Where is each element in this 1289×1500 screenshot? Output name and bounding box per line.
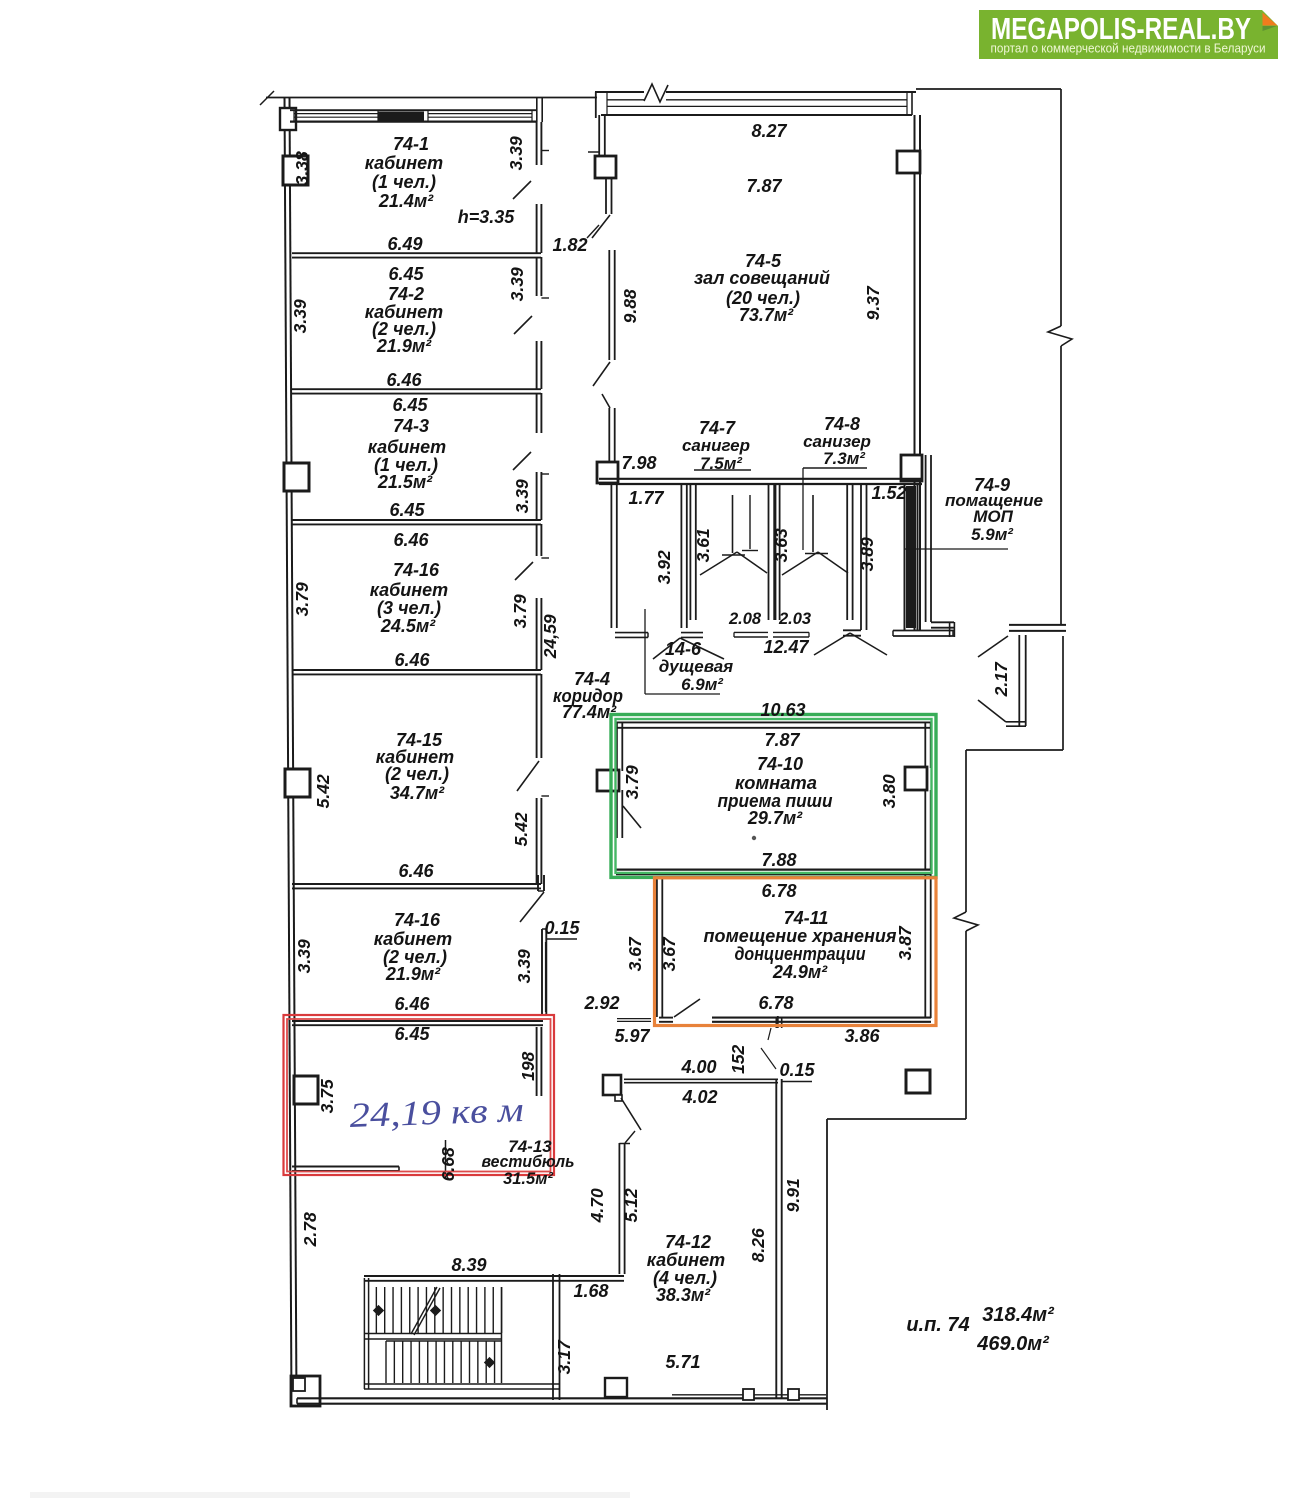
site boundary vertical x=827 <box>826 1119 828 1410</box>
svg-text:3.87: 3.87 <box>895 925 915 960</box>
window sill mark 2 <box>788 1389 799 1400</box>
room 74-12 top wall (4.00/4.02 dim) <box>624 1079 778 1082</box>
wall stub below room with red mark <box>292 1167 399 1171</box>
dimension line 2.08 <box>734 632 768 637</box>
room 74-16 corridor wall lower <box>537 598 542 670</box>
wall stub near 6.68 label <box>445 1140 447 1179</box>
dim 3.39 door 74-16(2) <box>514 949 534 983</box>
svg-text:21.9м²: 21.9м² <box>385 964 441 984</box>
door swing passage lower <box>978 700 1006 722</box>
svg-text:74-16: 74-16 <box>393 560 440 580</box>
label leader 7.3m2 <box>803 468 867 550</box>
sanitary corridor wall stub <box>843 630 861 635</box>
room 74-1 top wall inner line <box>290 120 536 122</box>
dim 3.39 door 74-3 <box>512 479 532 513</box>
partition wall 74-1/74-2 <box>292 253 541 257</box>
svg-text:3.17: 3.17 <box>554 1339 574 1374</box>
door leaf room 74-1 <box>513 181 531 199</box>
room 74-5 left wall segment 2 <box>606 178 612 214</box>
svg-text:5.42: 5.42 <box>313 774 333 808</box>
room 74-13 labels <box>482 1137 575 1188</box>
dim 152 <box>728 1044 748 1073</box>
faint scan marks at bottom <box>30 1492 630 1498</box>
svg-text:3.75: 3.75 <box>317 1079 337 1113</box>
dimension 1.52 <box>871 483 906 503</box>
pilaster at bottom-left corner <box>291 1376 320 1406</box>
pilaster on left wall at top corner <box>280 108 296 130</box>
svg-text:24,19 кв м: 24,19 кв м <box>349 1090 524 1135</box>
dimension 6.49 <box>387 234 422 254</box>
svg-text:38.3м²: 38.3м² <box>656 1285 711 1305</box>
svg-text:портал о коммерческой недвижим: портал о коммерческой недвижимости в Бел… <box>991 42 1266 56</box>
dim 8.26 <box>748 1228 768 1262</box>
svg-text:21.9м²: 21.9м² <box>376 336 432 356</box>
room 74-5 left wall upper segment <box>588 115 605 156</box>
svg-text:комната: комната <box>735 773 817 793</box>
dim 9.91 <box>783 1178 803 1212</box>
svg-text:донциентрации: донциентрации <box>735 944 866 964</box>
room 74-1 corridor wall lower <box>537 204 542 253</box>
partition wall 74-16/74-15 <box>292 670 541 674</box>
room 74-7 labels <box>682 418 750 473</box>
svg-text:24,59: 24,59 <box>540 614 560 659</box>
svg-text:7.88: 7.88 <box>761 850 796 870</box>
svg-text:3.79: 3.79 <box>292 582 312 616</box>
svg-text:5.9м²: 5.9м² <box>971 525 1014 544</box>
pilaster on 74-5 right wall lower <box>901 455 922 481</box>
door leaf room 74-3 <box>513 452 531 470</box>
svg-text:74-2: 74-2 <box>388 284 424 304</box>
site boundary right upper segment with break symbol <box>1048 89 1072 624</box>
site boundary step at y=1119 <box>827 1118 966 1120</box>
door swing passage upper <box>978 636 1008 657</box>
svg-text:74-3: 74-3 <box>393 416 429 436</box>
stairwell top wall <box>364 1276 624 1281</box>
room 74-11 right wall <box>925 874 930 1018</box>
dim 6.68 <box>438 1147 458 1181</box>
room 74-5 left wall segment 4 <box>609 408 614 463</box>
svg-text:2.78: 2.78 <box>300 1212 320 1247</box>
pilaster on bottom wall <box>605 1378 627 1397</box>
svg-text:6.78: 6.78 <box>758 993 793 1013</box>
pilaster on left wall y=1076 <box>294 1076 318 1104</box>
pilaster on 74-5 left wall <box>595 156 616 178</box>
dimension 10.63 <box>760 700 805 720</box>
dim 3.67 b <box>659 936 679 971</box>
svg-text:7.87: 7.87 <box>746 176 782 196</box>
room 74-16 labels <box>370 530 448 670</box>
svg-text:12.47: 12.47 <box>763 637 809 657</box>
svg-text:74-1: 74-1 <box>393 134 429 154</box>
staircase landing lines <box>364 1334 502 1340</box>
window in 74-1 top wall (right) <box>428 110 532 121</box>
room 74-16(2) corridor wall lower <box>542 929 546 1015</box>
svg-text:198: 198 <box>518 1051 538 1080</box>
svg-text:6.68: 6.68 <box>438 1147 458 1181</box>
svg-text:8.26: 8.26 <box>748 1228 768 1262</box>
svg-text:2.03: 2.03 <box>778 610 811 628</box>
logo orange fold corner <box>1263 13 1278 32</box>
dimension 1.77 <box>628 488 664 508</box>
svg-text:3.39: 3.39 <box>506 136 526 170</box>
dim 3.75 left <box>317 1079 337 1113</box>
svg-text:74-16: 74-16 <box>394 910 441 930</box>
pilaster at sanitary block top-left <box>597 462 618 483</box>
dim 3.17 <box>554 1339 574 1374</box>
svg-text:74-8: 74-8 <box>824 414 860 434</box>
store room bottom foot <box>893 631 955 637</box>
dimension 2.08 <box>728 610 762 628</box>
room 74-11 labels <box>704 881 897 1013</box>
door swing store room <box>814 633 887 655</box>
sanitary block top wall <box>599 479 922 484</box>
svg-text:6.45: 6.45 <box>388 264 424 284</box>
svg-text:7.87: 7.87 <box>764 730 800 750</box>
door leaf room 74-2 <box>514 316 532 334</box>
svg-text:6.46: 6.46 <box>398 861 434 881</box>
leader lines for 152 <box>761 1028 776 1069</box>
svg-text:дущевая: дущевая <box>659 657 733 676</box>
svg-text:6.45: 6.45 <box>392 395 428 415</box>
door swing toilet 74-8 <box>782 552 848 575</box>
dim 3.39 left b <box>294 939 314 973</box>
dim 24.59 corridor <box>540 614 560 659</box>
room 74-1 corridor wall upper <box>537 122 549 165</box>
dim 3.92 <box>654 550 674 584</box>
svg-text:3.39: 3.39 <box>512 479 532 513</box>
corridor 74-4 labels <box>553 669 623 722</box>
room 74-1 top wall outer line <box>290 109 536 111</box>
passage wall 2.17 <box>1019 635 1025 726</box>
svg-text:4.00: 4.00 <box>680 1057 716 1077</box>
svg-text:3.89: 3.89 <box>857 537 877 571</box>
room 74-16(2) corridor wall upper <box>538 875 544 891</box>
room 74-16 corridor wall upper <box>537 524 549 558</box>
svg-text:152: 152 <box>728 1044 748 1073</box>
total area labels <box>906 1304 1055 1355</box>
room 74-2 corridor wall upper <box>537 257 549 298</box>
stairwell right wall <box>553 1274 560 1400</box>
pilaster on left wall y=769 <box>285 769 310 797</box>
toilet stall divider 74-7 <box>722 495 745 555</box>
dimension 4.00 <box>680 1057 716 1077</box>
dim 2.17 <box>991 661 1011 697</box>
svg-text:318.4м²: 318.4м² <box>982 1304 1055 1326</box>
svg-text:3.79: 3.79 <box>622 765 642 799</box>
svg-text:зал совещаний: зал совещаний <box>694 268 830 288</box>
svg-text:1.68: 1.68 <box>573 1281 608 1301</box>
dimension 12.47 <box>763 637 809 657</box>
room 74-5 top wall outer line <box>595 92 916 118</box>
store room right wall <box>905 484 918 630</box>
svg-text:0.15: 0.15 <box>779 1060 815 1080</box>
staircase bottom line <box>364 1384 559 1389</box>
leader tick for 1.82 <box>587 225 599 238</box>
dimension line 2.03 <box>773 632 809 637</box>
room 74-16(2) labels <box>374 910 452 1014</box>
site boundary step at y=750 <box>966 749 1063 751</box>
dim 3.39 door 74-2 <box>507 267 527 301</box>
pilaster column near boundary step <box>906 1070 930 1093</box>
dimension 3.86 <box>844 1026 880 1046</box>
label leader 7.5m2 <box>694 469 751 471</box>
dimension 6.45 red room <box>394 1024 430 1044</box>
dimension 0.15 lower <box>779 1060 815 1080</box>
dimension tick 152 top <box>777 1016 779 1028</box>
svg-text:9.37: 9.37 <box>863 285 883 320</box>
room 74-7 right wall <box>769 484 776 620</box>
pilaster on left wall y=463 <box>284 463 309 491</box>
room 74-8 right wall <box>847 484 852 620</box>
svg-text:(3 чел.): (3 чел.) <box>377 598 441 618</box>
pilaster on left wall y=156 <box>283 156 308 185</box>
svg-text:6.45: 6.45 <box>394 1024 430 1044</box>
door leaf vestibule/74-12 <box>621 1098 641 1130</box>
svg-text:(1 чел.): (1 чел.) <box>372 172 436 192</box>
svg-text:(2 чел.): (2 чел.) <box>385 764 449 784</box>
svg-text:4.02: 4.02 <box>681 1087 717 1107</box>
room 14-6 right wall <box>681 484 686 628</box>
svg-text:24.5м²: 24.5м² <box>380 616 436 636</box>
svg-text:кабинет: кабинет <box>647 1250 725 1270</box>
staircase section mark 2 <box>430 1305 441 1316</box>
svg-text:74-7: 74-7 <box>699 418 736 438</box>
svg-text:санигер: санигер <box>682 436 750 455</box>
room 74-9 left wall <box>926 455 931 622</box>
wall connector at 74-1 top-right corner <box>537 98 542 123</box>
dimension 5.97 <box>614 1026 650 1046</box>
room 74-10 left wall lower <box>617 790 622 838</box>
room 74-5 right wall <box>915 115 921 630</box>
dim 3.89 <box>857 537 877 571</box>
pilaster on 74-5 right wall upper <box>897 151 920 173</box>
svg-text:1.52: 1.52 <box>871 483 906 503</box>
svg-text:74-11: 74-11 <box>784 908 829 928</box>
svg-text:8.39: 8.39 <box>451 1255 486 1275</box>
svg-text:6.49: 6.49 <box>387 234 422 254</box>
window sill mark 1 <box>743 1389 754 1400</box>
svg-text:3.39: 3.39 <box>290 299 310 333</box>
room 74-15 corridor wall lower <box>537 798 542 884</box>
green highlight rectangle (room 74-10) <box>611 715 936 878</box>
svg-text:5.71: 5.71 <box>665 1352 700 1372</box>
site boundary top-right line <box>916 88 1061 90</box>
dim 3.79 door 74-16 <box>510 594 530 628</box>
room 14-6 labels <box>659 639 733 694</box>
dimension 1.68 <box>573 1281 608 1301</box>
svg-text:3.63: 3.63 <box>771 528 791 562</box>
svg-text:5.97: 5.97 <box>614 1026 650 1046</box>
svg-text:помещение хранения: помещение хранения <box>704 926 897 946</box>
svg-text:h=3.35: h=3.35 <box>458 207 516 227</box>
room 74-2 labels <box>365 264 443 390</box>
svg-text:7.98: 7.98 <box>621 453 656 473</box>
dimension 4.02 <box>681 1087 717 1107</box>
svg-text:6.46: 6.46 <box>394 650 430 670</box>
dim 9.88 <box>620 289 640 323</box>
room 74-2 corridor wall lower <box>537 341 542 389</box>
room 74-3 corridor wall upper <box>537 393 549 474</box>
logo subtitle <box>991 42 1266 56</box>
room 74-15 corridor wall upper <box>537 674 549 796</box>
svg-text:34.7м²: 34.7м² <box>390 783 445 803</box>
svg-text:10.63: 10.63 <box>760 700 805 720</box>
label leader 5.9m2 <box>905 548 1008 550</box>
room 74-5 left wall segment 3 (9.88 wall) <box>609 250 614 360</box>
svg-text:3.38: 3.38 <box>292 151 312 185</box>
svg-text:77.4м²: 77.4м² <box>562 702 617 722</box>
svg-text:3.39: 3.39 <box>514 949 534 983</box>
svg-text:31.5м²: 31.5м² <box>503 1170 553 1188</box>
svg-text:6.46: 6.46 <box>393 530 429 550</box>
logo green banner <box>979 10 1278 59</box>
passage wall bottom tick <box>1006 722 1026 726</box>
orange highlight rectangle (room 74-11) <box>655 878 937 1026</box>
svg-text:7.5м²: 7.5м² <box>700 454 743 473</box>
room 74-1 labels <box>365 134 443 211</box>
svg-text:кабинет: кабинет <box>368 437 446 457</box>
room 74-11 bottom wall <box>712 1018 931 1022</box>
dim 4.70 <box>587 1188 607 1223</box>
room 74-3 labels <box>368 395 446 520</box>
room 74-5 labels <box>694 121 830 325</box>
staircase upper flight treads <box>376 1287 501 1383</box>
pilaster on 74-10 right wall <box>905 767 927 790</box>
room 74-8 left wall <box>774 484 779 620</box>
room 74-10 top wall <box>616 722 931 727</box>
room 74-9 step vertical <box>950 622 955 637</box>
svg-text:5.42: 5.42 <box>511 812 531 846</box>
dimension 2.03 <box>778 610 811 628</box>
break symbol on 74-5 top wall <box>644 84 668 102</box>
dimension 0.15 underline lower <box>781 1081 812 1083</box>
dim 3.79 room 74-10 <box>622 765 642 799</box>
site boundary right lower segment with break symbol <box>954 750 978 1119</box>
dimension line 5.97 <box>617 1019 651 1022</box>
store room left wall <box>861 484 867 630</box>
svg-text:3.92: 3.92 <box>654 550 674 584</box>
passage top double wall <box>1009 625 1066 631</box>
dim 3.61 <box>693 528 713 562</box>
red highlight rectangle (24.19 sq m room) <box>284 1015 555 1175</box>
svg-text:6.9м²: 6.9м² <box>681 675 724 694</box>
door leaf room 74-11 <box>674 999 700 1017</box>
dim 3.79 left <box>292 582 312 616</box>
room 74-13 east wall segment <box>537 1027 542 1096</box>
svg-text:73.7м²: 73.7м² <box>739 305 794 325</box>
dim 3.80 room 74-10 <box>879 774 899 808</box>
svg-text:21.4м²: 21.4м² <box>378 191 434 211</box>
svg-text:и.п. 74: и.п. 74 <box>906 1314 969 1336</box>
dim 3.39 left a <box>290 299 310 333</box>
dim 3.39 door 74-1 <box>506 136 526 170</box>
room 14-6 bottom wall stub <box>615 633 703 638</box>
svg-text:2.92: 2.92 <box>583 993 619 1013</box>
svg-text:21.5м²: 21.5м² <box>377 472 433 492</box>
svg-text:74-12: 74-12 <box>665 1232 711 1252</box>
staircase lower flight treads <box>386 1341 502 1383</box>
room 74-5 top wall inner line <box>601 92 912 115</box>
svg-text:кабинет: кабинет <box>370 580 448 600</box>
dim 2.78 left <box>300 1212 320 1247</box>
svg-text:0.15: 0.15 <box>544 918 580 938</box>
svg-text:2.17: 2.17 <box>991 661 1011 697</box>
room 74-10 right wall lower <box>925 790 930 869</box>
svg-text:3.86: 3.86 <box>844 1026 880 1046</box>
svg-text:1.77: 1.77 <box>628 488 664 508</box>
svg-text:1.82: 1.82 <box>552 235 587 255</box>
svg-text:3.39: 3.39 <box>507 267 527 301</box>
room 74-10 right wall upper <box>925 722 930 768</box>
svg-text:74-10: 74-10 <box>757 754 803 774</box>
room 74-11 bottom wall stub <box>659 1018 673 1022</box>
room 74-10 labels <box>718 730 833 870</box>
door leaf room 74-16 <box>515 562 533 580</box>
svg-text:3.67: 3.67 <box>659 936 679 971</box>
left exterior wall (double line) <box>285 97 297 1403</box>
svg-text:3.67: 3.67 <box>625 936 645 971</box>
room 74-3 corridor wall lower <box>537 472 542 520</box>
room 74-7 left wall <box>690 484 695 620</box>
window in 74-1 top wall (left) <box>294 110 378 121</box>
dim 3.38 left <box>292 151 312 185</box>
svg-text:9.88: 9.88 <box>620 289 640 323</box>
bottom exterior wall <box>297 1398 827 1403</box>
partition wall 74-2/74-3 <box>292 389 541 393</box>
partition wall 74-16(2)/74-13 <box>292 1021 543 1025</box>
svg-text:3.61: 3.61 <box>693 528 713 562</box>
dim 1.98 <box>518 1051 538 1080</box>
room 74-11 left wall <box>657 877 662 1017</box>
dimension 0.15 upper <box>544 918 580 938</box>
toilet stall divider 74-8 <box>805 495 828 554</box>
dimension 8.39 <box>451 1255 486 1275</box>
door leaves corridor double door <box>593 362 610 408</box>
dim 3.67 a <box>625 936 645 971</box>
svg-text:29.7м²: 29.7м² <box>747 808 803 828</box>
svg-text:6.45: 6.45 <box>389 500 425 520</box>
room 74-12 right wall tick above <box>776 1017 781 1028</box>
dimension h=3.35 <box>458 207 516 227</box>
wall pier (filled) in 74-1 top wall <box>378 112 424 123</box>
dim 5.42 left <box>313 774 333 808</box>
door leaves room 14-6 <box>653 638 724 659</box>
svg-text:5.12: 5.12 <box>621 1188 641 1222</box>
dimension 7.98 <box>621 453 656 473</box>
room 74-10 bottom wall <box>616 870 931 875</box>
door leaf room 74-15 <box>517 761 539 791</box>
pilaster at 74-12 top-left <box>603 1075 622 1101</box>
staircase section mark 3 <box>484 1357 495 1368</box>
svg-text:кабинет: кабинет <box>374 929 452 949</box>
dim 5.42 door 74-15 <box>511 812 531 846</box>
partition wall 74-15/74-16(2) <box>292 884 541 888</box>
handwritten area note 24,19 kv m <box>349 1090 524 1135</box>
room 74-12 labels <box>647 1232 725 1372</box>
svg-text:7.3м²: 7.3м² <box>823 449 866 468</box>
small mark in room 74-10 <box>752 836 756 840</box>
cistern mark 74-7 <box>742 495 758 551</box>
window band in 74-5 top wall <box>607 92 907 115</box>
corridor wall extension line <box>545 942 547 1012</box>
site boundary top-left line <box>260 91 597 105</box>
label leader 14-6 <box>645 609 720 694</box>
svg-text:3.39: 3.39 <box>294 939 314 973</box>
dimension 0.15 underline <box>547 938 577 940</box>
dim 9.37 <box>863 285 883 320</box>
room 74-12 right wall <box>776 1079 781 1399</box>
room 74-9 labels <box>945 475 1043 544</box>
